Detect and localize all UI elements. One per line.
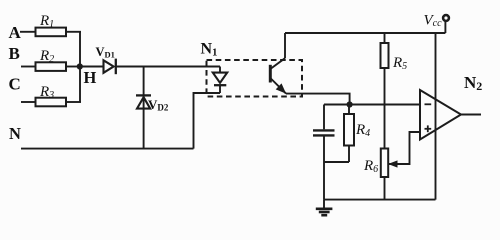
wire H to VD1 <box>80 66 104 68</box>
R6 wiper arrow to op-amp + input <box>388 132 420 168</box>
svg-text:R6: R6 <box>363 158 378 175</box>
wire op-amp output <box>461 114 481 116</box>
op-amp N2 <box>420 73 482 140</box>
optocoupler N1 dashed box <box>207 60 303 97</box>
optocoupler N1 label <box>201 41 218 59</box>
svg-text:R2: R2 <box>39 48 54 65</box>
wire node line to op-amp inverting input <box>324 104 420 106</box>
wire R6 bottom to ground rail <box>384 177 386 200</box>
resistor R2 <box>36 48 67 71</box>
node H label <box>84 68 97 87</box>
diode VD1 <box>96 45 116 74</box>
svg-text:B: B <box>9 44 20 63</box>
wire top supply rail <box>285 32 445 34</box>
wire A input <box>20 31 35 33</box>
node A label <box>9 23 22 42</box>
svg-text:Vcc: Vcc <box>424 13 443 30</box>
wire R4/C bottom connector <box>324 161 349 163</box>
svg-text:A: A <box>9 23 22 42</box>
svg-text:N1: N1 <box>201 41 218 59</box>
node B label <box>9 44 20 63</box>
svg-text:R4: R4 <box>355 122 370 139</box>
resistor R4 <box>344 105 370 163</box>
svg-text:R1: R1 <box>39 13 54 30</box>
capacitor C top lead <box>323 105 325 130</box>
resistor R6 (potentiometer) <box>363 149 388 178</box>
resistor R3 <box>36 84 67 106</box>
wire VD2 branch vertical <box>143 67 145 149</box>
capacitor C bottom lead / drop to ground rail <box>323 137 325 200</box>
Vcc terminal <box>424 13 449 34</box>
capacitor C <box>313 130 335 135</box>
svg-text:VD1: VD1 <box>96 45 115 59</box>
node H junction dot <box>77 63 83 69</box>
optocoupler LED <box>213 67 227 94</box>
svg-text:C: C <box>9 75 21 94</box>
wire R2 to node H <box>66 66 80 68</box>
wire summing bus vertical <box>79 32 81 102</box>
ground <box>316 200 333 216</box>
optocoupler phototransistor <box>270 58 286 93</box>
svg-text:VD2: VD2 <box>148 97 169 113</box>
wire VD1 to optocoupler LED <box>116 66 220 68</box>
svg-text:N: N <box>9 124 21 143</box>
wire R1 to bus <box>66 31 81 33</box>
diode VD2 <box>136 95 169 112</box>
wire LED cathode drop <box>194 93 221 149</box>
svg-text:R3: R3 <box>39 84 54 101</box>
wire R3 to bus <box>66 101 81 103</box>
svg-text:H: H <box>84 68 97 87</box>
wire R5 to R6 (crosses node line) <box>384 68 386 149</box>
wire op-amp supply vertical <box>435 33 437 200</box>
svg-text:N2: N2 <box>464 73 482 93</box>
resistor R1 <box>36 13 67 36</box>
resistor R5 <box>381 33 408 72</box>
wire B input <box>21 66 35 68</box>
wire emitter to node <box>286 94 350 105</box>
wire collector riser <box>284 33 286 58</box>
node junction dot (inverting input node) <box>347 101 353 107</box>
wire bottom ground rail <box>324 199 436 201</box>
svg-text:R5: R5 <box>392 55 407 72</box>
wire C input <box>21 101 35 103</box>
node N label <box>9 124 21 143</box>
wire N line <box>21 148 194 150</box>
node C label <box>9 75 21 94</box>
